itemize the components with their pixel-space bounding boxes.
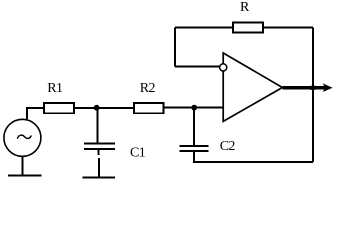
node B junction dot bbox=[191, 105, 197, 111]
ground bar under source bbox=[8, 175, 41, 177]
output rail (right vertical) bbox=[312, 28, 314, 162]
svg-text:R: R bbox=[240, 0, 250, 15]
capacitor C1 top plate bbox=[84, 142, 115, 144]
resistor R1 bbox=[44, 103, 74, 113]
op-amp U1 bbox=[223, 53, 282, 121]
svg-text:R2: R2 bbox=[140, 81, 156, 96]
wire C1 lower lead upper dash bbox=[98, 150, 100, 155]
output arrowhead bbox=[323, 83, 333, 92]
wire rail top to resistor R bbox=[264, 27, 313, 29]
wire feedback to inverting input bbox=[175, 66, 219, 68]
wire node B down to C2 bbox=[193, 108, 195, 145]
capacitor C2 top plate bbox=[180, 145, 209, 147]
svg-text:C2: C2 bbox=[220, 139, 236, 154]
wire R1 to node A to R2 bbox=[75, 107, 134, 109]
resistor R2 bbox=[134, 103, 164, 113]
tilde inside source bbox=[17, 135, 31, 139]
svg-text:C1: C1 bbox=[130, 146, 146, 161]
output wire arrow shaft bbox=[283, 86, 328, 89]
wire source bottom lead bbox=[21, 157, 23, 175]
capacitor C1 bottom plate bbox=[84, 148, 115, 150]
capacitor C2 bottom plate bbox=[180, 150, 209, 152]
wire C2 bottom to output rail bbox=[194, 152, 313, 162]
crossing blob at rail bbox=[310, 86, 315, 90]
wire C1 lower lead to ground bbox=[98, 158, 100, 177]
wire source top lead to R1 bbox=[27, 108, 44, 119]
feedback left vertical bbox=[174, 28, 176, 67]
wire R to feedback corner bbox=[175, 27, 232, 29]
svg-text:R1: R1 bbox=[47, 81, 63, 96]
AC source V1 bbox=[4, 119, 41, 156]
resistor R (feedback) bbox=[233, 22, 263, 32]
ground bar under C1 bbox=[82, 177, 115, 179]
wire R2 to node B to op-amp bbox=[165, 107, 223, 109]
node A junction dot bbox=[94, 105, 100, 111]
wire node A down to C1 bbox=[97, 108, 99, 143]
inverting input bubble bbox=[220, 64, 227, 71]
